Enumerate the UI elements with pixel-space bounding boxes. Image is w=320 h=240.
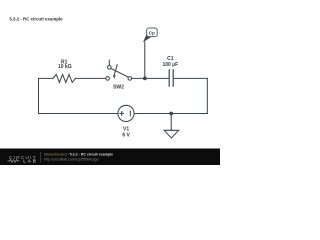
switch SW2 actuation arrow <box>114 65 117 76</box>
svg-text:6 V: 6 V <box>122 133 130 139</box>
svg-text:5.3.2 - RC circuit example: 5.3.2 - RC circuit example <box>9 16 63 21</box>
svg-text:futureshocked / 5.3.2 - RC cir: futureshocked / 5.3.2 - RC circuit examp… <box>44 152 113 156</box>
wire right vertical <box>206 78 208 113</box>
junction dot at Cp tap <box>143 77 147 81</box>
V1 plus sign <box>120 112 124 116</box>
svg-text:10 kΩ: 10 kΩ <box>58 64 72 70</box>
svg-text:100 µF: 100 µF <box>162 62 178 68</box>
node flag Cp box <box>147 28 158 37</box>
node flag Cp pointer wedge <box>143 34 152 42</box>
switch arrow head <box>113 75 116 79</box>
wire switch to capacitor <box>132 77 169 79</box>
resistor R1 <box>53 74 75 82</box>
switch SW2 top stub <box>108 60 110 65</box>
wire resistor to switch <box>75 77 105 79</box>
wire top-left to resistor <box>39 77 54 79</box>
V1 minus sign (rotated) <box>129 111 131 116</box>
ground stub <box>170 114 172 131</box>
ground symbol <box>164 130 179 138</box>
wire capacitor to corner <box>174 77 208 79</box>
switch SW2 left terminal <box>106 77 110 81</box>
switch SW2 top terminal <box>108 66 112 70</box>
junction dot at ground <box>169 112 173 116</box>
switch SW2 right terminal <box>128 77 132 81</box>
capacitor C1 right plate <box>172 70 174 86</box>
wire bottom right to source <box>134 113 207 115</box>
capacitor C1 left plate <box>168 70 170 86</box>
svg-text:LAB: LAB <box>23 159 36 164</box>
footer bar <box>0 149 220 166</box>
wire source to bottom-left corner <box>39 113 118 115</box>
wire left vertical <box>38 78 40 113</box>
footer separator <box>40 152 42 162</box>
svg-text:V1: V1 <box>123 126 129 132</box>
switch SW2 lever <box>111 68 129 77</box>
svg-text:http://circuitlab.com/c/pr59t6: http://circuitlab.com/c/pr59t64csgd <box>44 157 99 161</box>
voltage source V1 <box>118 105 134 121</box>
svg-text:SW2: SW2 <box>113 85 124 91</box>
svg-text:Cp: Cp <box>149 31 155 36</box>
node Cp tap wire <box>144 42 146 78</box>
footer logo resistor zigzag <box>8 160 20 163</box>
